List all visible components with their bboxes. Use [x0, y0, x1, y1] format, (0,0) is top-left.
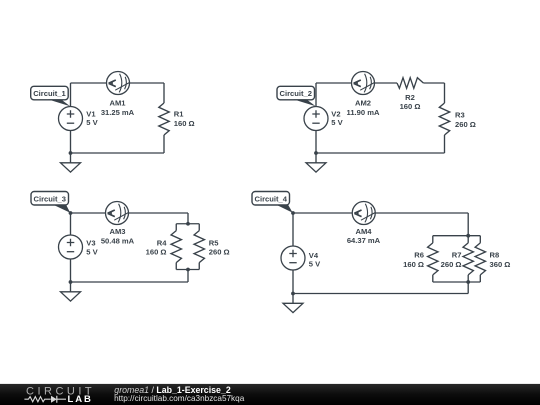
- svg-text:160 Ω: 160 Ω: [174, 119, 195, 128]
- svg-text:AM4: AM4: [355, 227, 372, 236]
- svg-text:260 Ω: 260 Ω: [455, 120, 476, 129]
- svg-text:260 Ω: 260 Ω: [209, 248, 230, 257]
- svg-text:160 Ω: 160 Ω: [146, 248, 167, 257]
- svg-text:AM3: AM3: [109, 227, 125, 236]
- svg-text:LAB: LAB: [68, 394, 93, 405]
- svg-text:360 Ω: 360 Ω: [490, 260, 511, 269]
- svg-text:R1: R1: [174, 110, 184, 119]
- svg-text:31.25 mA: 31.25 mA: [101, 108, 135, 117]
- svg-text:http://circuitlab.com/ca3nbzca: http://circuitlab.com/ca3nbzca57kqa: [114, 394, 245, 403]
- svg-text:R7: R7: [452, 250, 462, 259]
- svg-text:5 V: 5 V: [309, 259, 321, 268]
- svg-text:260 Ω: 260 Ω: [441, 260, 462, 269]
- svg-text:11.90 mA: 11.90 mA: [347, 108, 380, 117]
- svg-text:V3: V3: [86, 239, 95, 248]
- svg-text:R3: R3: [455, 111, 465, 120]
- svg-text:5 V: 5 V: [331, 118, 343, 127]
- svg-text:50.48 mA: 50.48 mA: [101, 236, 135, 245]
- svg-text:R8: R8: [490, 250, 500, 259]
- svg-text:AM1: AM1: [109, 99, 126, 108]
- svg-text:Circuit_3: Circuit_3: [34, 194, 67, 203]
- svg-text:R5: R5: [209, 239, 219, 248]
- svg-text:R2: R2: [405, 93, 415, 102]
- svg-text:5 V: 5 V: [86, 247, 98, 256]
- svg-text:160 Ω: 160 Ω: [403, 260, 424, 269]
- svg-text:R6: R6: [414, 250, 424, 259]
- svg-text:Circuit_1: Circuit_1: [33, 89, 66, 98]
- svg-text:V2: V2: [331, 109, 340, 118]
- svg-text:64.37 mA: 64.37 mA: [347, 236, 381, 245]
- svg-text:R4: R4: [157, 239, 167, 248]
- svg-text:160 Ω: 160 Ω: [400, 102, 421, 111]
- svg-text:Circuit_2: Circuit_2: [280, 89, 313, 98]
- svg-text:AM2: AM2: [355, 99, 371, 108]
- svg-text:Circuit_4: Circuit_4: [255, 194, 288, 203]
- svg-text:V1: V1: [86, 109, 96, 118]
- svg-text:5 V: 5 V: [86, 118, 98, 127]
